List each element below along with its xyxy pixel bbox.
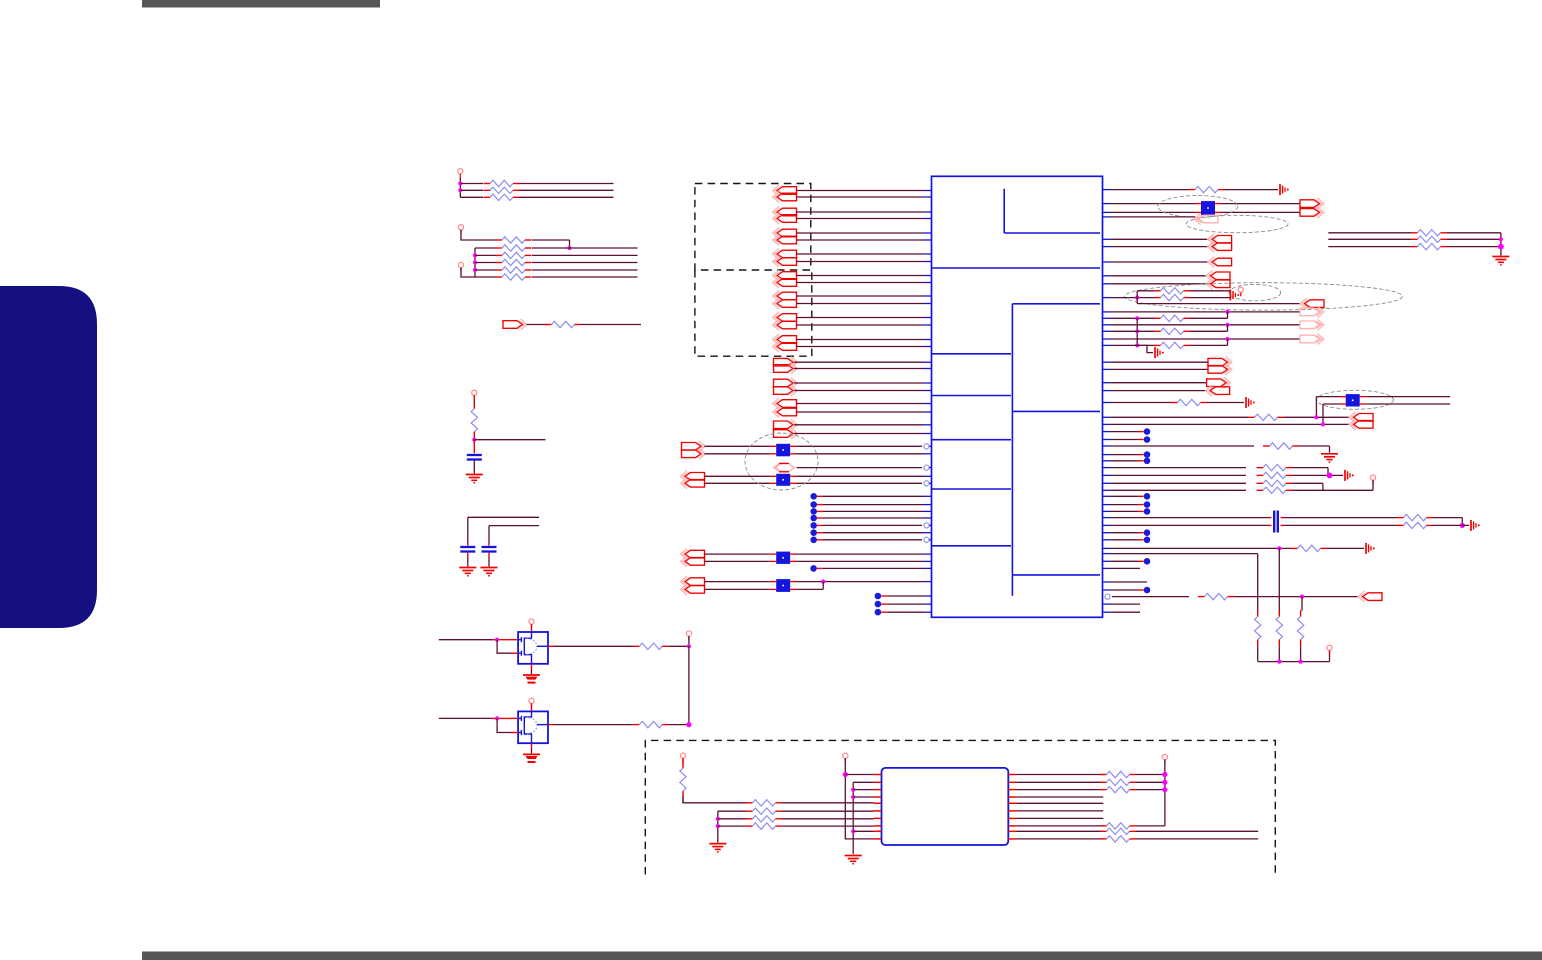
wire: [1111, 431, 1139, 433]
port G2b: [685, 480, 705, 488]
junction: [1225, 323, 1229, 327]
wire: [1111, 297, 1155, 299]
wire: [1136, 781, 1165, 783]
wire: [474, 439, 545, 441]
wire: [1300, 646, 1302, 662]
power symbol VCC3: [458, 262, 463, 267]
lead: [511, 732, 518, 734]
wire: [1293, 482, 1323, 484]
port Q4b: [774, 430, 794, 438]
resistor: [545, 324, 552, 326]
wire: [797, 295, 924, 297]
junction: [1327, 473, 1333, 479]
pin lead: [1008, 774, 1016, 776]
wire: [1111, 382, 1207, 384]
port: [1210, 387, 1230, 395]
dashed group box 3: [645, 740, 1275, 876]
wire: [1111, 532, 1139, 534]
no-connect dot: [875, 601, 882, 608]
annotation ellipse: [1317, 390, 1394, 409]
power tap: [1365, 543, 1367, 554]
resistor: [633, 724, 640, 726]
wire: [705, 453, 771, 455]
junction: [1499, 237, 1503, 241]
U1 internal divider vertical top: [1003, 189, 1005, 233]
wire: [845, 758, 853, 839]
ground: [466, 474, 483, 476]
wire: [1284, 524, 1397, 526]
port: [1300, 200, 1320, 208]
wire: [1278, 548, 1280, 610]
bidir marker: [774, 464, 795, 472]
resistor R vert: [1278, 610, 1280, 617]
port P8a: [777, 336, 797, 344]
junction: [851, 795, 855, 799]
wire: [1221, 211, 1300, 213]
wire: [823, 517, 924, 519]
wire: [853, 789, 873, 791]
junction: [567, 246, 571, 250]
wire: [461, 230, 496, 240]
power tap: [1279, 184, 1281, 195]
port P1a: [777, 187, 797, 195]
port Q4a: [774, 421, 794, 429]
wire: [796, 453, 923, 455]
U1 internal divider h3: [1012, 410, 1100, 412]
wire: [1111, 539, 1139, 541]
bus wire: [474, 248, 476, 277]
no-connect dot: [875, 593, 882, 600]
wire: [1111, 211, 1196, 213]
pin lead: [874, 817, 882, 819]
wire: [1328, 246, 1411, 248]
wire: [1016, 825, 1103, 827]
pin lead: [1008, 789, 1016, 791]
resistor: [484, 196, 491, 198]
U1 internal vertical divider: [1011, 304, 1013, 596]
resistor: [1397, 517, 1404, 519]
U1 internal divider left h5: [932, 545, 1012, 547]
wire: [497, 718, 511, 732]
lead: [473, 440, 475, 454]
lead: [531, 743, 533, 748]
wire: [489, 525, 539, 527]
annotation ellipse: [1229, 284, 1281, 300]
annotation ellipse: [1158, 196, 1238, 218]
port: [1354, 421, 1374, 429]
power symbol VCC4: [472, 390, 477, 395]
junction: [1300, 595, 1304, 599]
no-connect dot: [810, 522, 817, 529]
wire: [1190, 297, 1230, 299]
wire: [782, 825, 874, 827]
junction: [1321, 422, 1325, 426]
wire: [520, 196, 614, 198]
no-connect dot: [810, 493, 817, 500]
wire: [1137, 303, 1301, 305]
junction: [1225, 310, 1229, 314]
wire: [1447, 238, 1501, 240]
wire: [1111, 402, 1172, 404]
wire: [853, 781, 873, 783]
wire: [1016, 796, 1103, 798]
ground Q1: [523, 674, 540, 676]
dashed group box 2: [695, 270, 812, 356]
wire: [1111, 454, 1139, 456]
wire: [1461, 518, 1463, 526]
wire: [1137, 345, 1153, 352]
wire: [1112, 596, 1189, 598]
wire: [439, 717, 492, 719]
ground: [1492, 256, 1509, 258]
power symbol: [1327, 645, 1332, 650]
port: [1300, 308, 1320, 316]
resistor: [1100, 774, 1107, 776]
resistor: [633, 645, 640, 647]
port P6a: [777, 292, 797, 300]
resistor: [1397, 524, 1404, 526]
port: [1211, 272, 1231, 280]
port P6b: [777, 300, 797, 308]
wire: [475, 276, 496, 278]
wire: [1111, 445, 1255, 447]
port P4a: [777, 250, 797, 258]
power symbol: [686, 631, 691, 636]
no-connect dot: [1144, 508, 1151, 515]
port G2a: [685, 473, 705, 481]
U1 internal divider: [932, 267, 1101, 269]
wire: [1221, 203, 1300, 205]
junction: [473, 260, 477, 264]
wire: [1136, 291, 1138, 304]
resistor: [1171, 402, 1178, 404]
wire: [1190, 344, 1228, 346]
wire: [1447, 246, 1501, 248]
port P7b: [777, 321, 797, 329]
pack RP6: [1340, 396, 1346, 398]
port: [1305, 300, 1325, 308]
wire: [1016, 781, 1103, 783]
pin lead: [1008, 796, 1016, 798]
resistor: [1154, 290, 1161, 292]
resistor: [746, 818, 753, 820]
wire: [1207, 402, 1244, 404]
junction: [851, 829, 855, 833]
wire: [1227, 312, 1229, 318]
junction: [472, 438, 476, 442]
wire: [794, 368, 924, 370]
resistor: [1257, 474, 1264, 476]
wire: [822, 582, 824, 590]
no-connect dot: [1144, 537, 1151, 544]
wire: [439, 639, 492, 641]
wire: [475, 254, 496, 256]
resistor: [1411, 232, 1418, 234]
port G3b: [685, 558, 705, 566]
wire: [460, 189, 483, 191]
wire: [1257, 646, 1259, 662]
no-connect dot: [810, 515, 817, 522]
resistor: [1154, 297, 1161, 299]
wire: [1111, 495, 1139, 497]
bus wire: [852, 782, 854, 854]
wire: [845, 774, 873, 776]
power symbol: [843, 753, 848, 758]
pack RP1: [770, 445, 776, 447]
wire: [1016, 817, 1103, 819]
port: [1300, 321, 1320, 329]
wire: [705, 475, 771, 477]
lead: [548, 724, 554, 726]
port: [1212, 258, 1232, 266]
wire: [1136, 838, 1258, 840]
port Q2a: [774, 379, 794, 387]
wire: [1016, 830, 1103, 832]
junction: [473, 253, 477, 257]
wire: [1500, 233, 1502, 256]
junction: [1162, 772, 1167, 777]
no-connect dot: [1144, 428, 1151, 435]
lead: [492, 639, 512, 641]
lead: [548, 645, 554, 647]
wire: [475, 262, 496, 264]
resistor: [1257, 489, 1264, 491]
no-connect dot: [1144, 451, 1151, 458]
no-connect dot: [1144, 493, 1151, 500]
port Q1b: [774, 365, 794, 373]
wire: [532, 254, 638, 256]
wire: [797, 190, 924, 192]
resistor: [1411, 246, 1418, 248]
wire: [1111, 416, 1249, 418]
wire: [823, 532, 924, 534]
junction: [1135, 343, 1139, 347]
wire: [782, 810, 874, 812]
power tap: [1229, 290, 1231, 301]
wire: [1111, 361, 1209, 363]
wire: [1227, 339, 1229, 345]
wire: [1111, 330, 1155, 332]
wire: [1111, 581, 1148, 583]
junction: [687, 644, 691, 648]
wire: [1278, 646, 1280, 662]
wire: [1111, 603, 1141, 605]
resistor R vert: [1300, 610, 1302, 617]
wire: [532, 269, 638, 271]
wire: [796, 553, 923, 555]
wire: [823, 524, 922, 526]
junction: [1277, 660, 1281, 664]
capacitor: [488, 544, 490, 546]
port: [1211, 280, 1231, 288]
resistor: [1100, 825, 1107, 827]
wire: [796, 560, 923, 562]
wire: [1136, 318, 1138, 345]
junction: [1162, 780, 1167, 785]
wire: [797, 346, 924, 348]
wire: [1284, 416, 1350, 418]
wire: [705, 581, 771, 583]
wire: [1190, 317, 1228, 319]
port P7a: [777, 314, 797, 322]
no-connect dot: [1144, 529, 1151, 536]
port: [1354, 414, 1374, 422]
bus wire: [717, 811, 719, 842]
port: [1207, 379, 1227, 387]
wire: [1111, 611, 1141, 613]
wire: [1234, 596, 1359, 598]
wire: [797, 317, 924, 319]
no-connect dot: [810, 508, 817, 515]
wire: [1111, 189, 1189, 191]
junction: [1498, 244, 1504, 250]
resistor: [1291, 547, 1298, 549]
wire: [1111, 482, 1247, 484]
wire: [669, 724, 689, 726]
port Q2b: [774, 387, 794, 395]
wire: [1293, 474, 1344, 476]
wire: [797, 239, 924, 241]
wire: [796, 588, 823, 590]
U1 internal divider h2: [1012, 303, 1100, 305]
wire: [1329, 650, 1331, 661]
wire: [1111, 311, 1301, 313]
wire: [823, 495, 924, 497]
wire: [467, 517, 469, 543]
wire: [794, 433, 924, 435]
no-connect dot: [1144, 501, 1151, 508]
wire: [823, 539, 922, 541]
wire: [797, 324, 924, 326]
no-connect dot: [1144, 458, 1151, 465]
wire: [1327, 547, 1364, 549]
wire: [1257, 554, 1259, 611]
wire: [1016, 774, 1103, 776]
ground: [481, 567, 498, 569]
wire: [1111, 467, 1247, 469]
resistor: [1154, 330, 1161, 332]
wire: [1111, 246, 1209, 248]
wire: [887, 595, 923, 597]
wire: [823, 567, 924, 569]
power symbol: [1238, 287, 1243, 292]
port P5b: [777, 279, 797, 287]
port: [1208, 366, 1228, 374]
pin lead: [1008, 838, 1016, 840]
junction: [495, 638, 499, 642]
pin lead: [1008, 830, 1016, 832]
wire: [1322, 483, 1324, 490]
wire: [797, 196, 924, 198]
lead: [682, 758, 684, 763]
wire: [887, 603, 923, 605]
capacitor C1: [467, 454, 482, 456]
pin lead: [874, 781, 882, 783]
wire: [794, 361, 924, 363]
power symbol: [680, 753, 685, 758]
port P2b: [777, 215, 797, 223]
resistor: [496, 262, 503, 264]
resistor: [1198, 596, 1205, 598]
wire: [1111, 368, 1209, 370]
junction: [716, 824, 720, 828]
wire: [1329, 446, 1331, 453]
wire: [1227, 325, 1229, 332]
port: [1212, 243, 1232, 251]
wire: [705, 482, 771, 484]
wire: [705, 588, 771, 590]
wire: [1111, 560, 1139, 562]
pin lead: [1008, 817, 1016, 819]
wire: [1433, 524, 1469, 526]
annotation ellipse: [1186, 215, 1288, 232]
wire: [797, 282, 924, 284]
wire: [796, 482, 922, 484]
wire: [718, 810, 746, 812]
wire: [1447, 232, 1501, 234]
wire: [794, 382, 924, 384]
junction: [843, 772, 848, 777]
U1 internal divider left h4: [932, 488, 1012, 490]
ground: [459, 567, 476, 569]
wire: [475, 247, 496, 249]
wire: [1111, 460, 1139, 462]
wire: [473, 461, 475, 474]
resistor: [496, 276, 503, 278]
ground: [845, 855, 862, 857]
lead: [531, 664, 533, 669]
wire: [532, 262, 638, 264]
wire: [797, 218, 924, 220]
left navy tab: [0, 286, 97, 628]
port G3a: [685, 550, 705, 558]
ground Q2: [523, 753, 540, 755]
wire: [1316, 396, 1345, 398]
wire: [794, 424, 924, 426]
pin lead: [1008, 802, 1016, 804]
port G4b: [685, 586, 705, 594]
transistor Q1: [518, 632, 548, 664]
wire: [1111, 275, 1208, 277]
resistor: [746, 825, 753, 827]
resistor R vert: [1257, 610, 1259, 617]
wire: [1111, 489, 1247, 491]
bus wire: [1258, 661, 1330, 663]
wire: [1111, 317, 1155, 319]
wire: [520, 183, 614, 185]
wire: [796, 475, 923, 477]
wire: [853, 838, 873, 840]
junction: [1225, 337, 1229, 341]
wire: [1301, 597, 1303, 611]
wire: [797, 303, 924, 305]
wire: [475, 269, 496, 271]
wire: [1293, 467, 1329, 469]
port G1b: [682, 450, 702, 458]
pin lead: [874, 838, 882, 840]
annotation ellipse: [745, 433, 818, 490]
U1 internal divider h4: [1012, 574, 1100, 576]
pack RP3: [770, 553, 776, 555]
junction: [1135, 329, 1139, 333]
resistor: [496, 239, 503, 241]
power tap: [1470, 520, 1472, 531]
resistor R vert: [473, 402, 475, 409]
wire: [1190, 330, 1228, 332]
wire: [1111, 344, 1155, 346]
wire: [1016, 810, 1103, 812]
port Q3a: [777, 400, 797, 408]
